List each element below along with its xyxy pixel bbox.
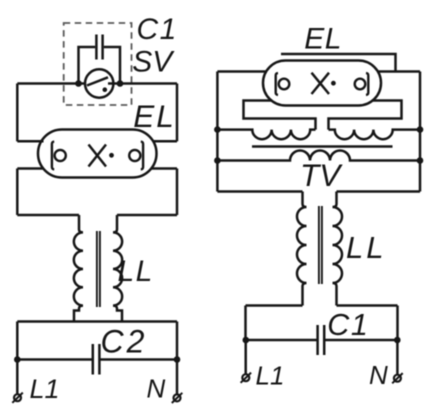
svg-text:EL: EL bbox=[133, 98, 176, 134]
svg-text:SV: SV bbox=[132, 46, 175, 79]
svg-text:N: N bbox=[369, 360, 388, 390]
svg-text:N: N bbox=[147, 374, 166, 404]
svg-text:C1: C1 bbox=[327, 308, 369, 342]
svg-text:L1: L1 bbox=[30, 374, 60, 404]
svg-text:EL: EL bbox=[304, 23, 342, 56]
svg-text:LL: LL bbox=[118, 255, 154, 288]
svg-text:TV: TV bbox=[300, 157, 343, 193]
svg-text:LL: LL bbox=[346, 230, 386, 265]
svg-text:L1: L1 bbox=[256, 361, 285, 391]
svg-text:C1: C1 bbox=[137, 13, 178, 46]
svg-text:C2: C2 bbox=[101, 324, 148, 360]
